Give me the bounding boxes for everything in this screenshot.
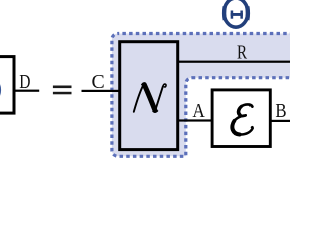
wire C	[82, 90, 122, 92]
channel box N	[120, 42, 178, 150]
wire D	[16, 90, 40, 92]
wire R	[178, 61, 290, 63]
svg-text:R: R	[237, 42, 248, 64]
wire B	[270, 120, 290, 122]
glyph script N	[134, 83, 166, 112]
left cut-off box	[0, 57, 14, 114]
theta symbol (top)	[224, 0, 248, 27]
svg-text:A: A	[192, 100, 205, 122]
wire A	[178, 119, 214, 121]
dashed region (lavender superchannel box)	[112, 34, 320, 157]
equals sign	[53, 86, 72, 89]
svg-text:C: C	[92, 71, 105, 93]
dashed region 2 (white environment box, overlapping)	[186, 78, 320, 178]
environment box E	[212, 90, 270, 147]
svg-text:B: B	[275, 100, 286, 122]
svg-text:D: D	[19, 71, 30, 93]
glyph script E	[231, 104, 254, 134]
